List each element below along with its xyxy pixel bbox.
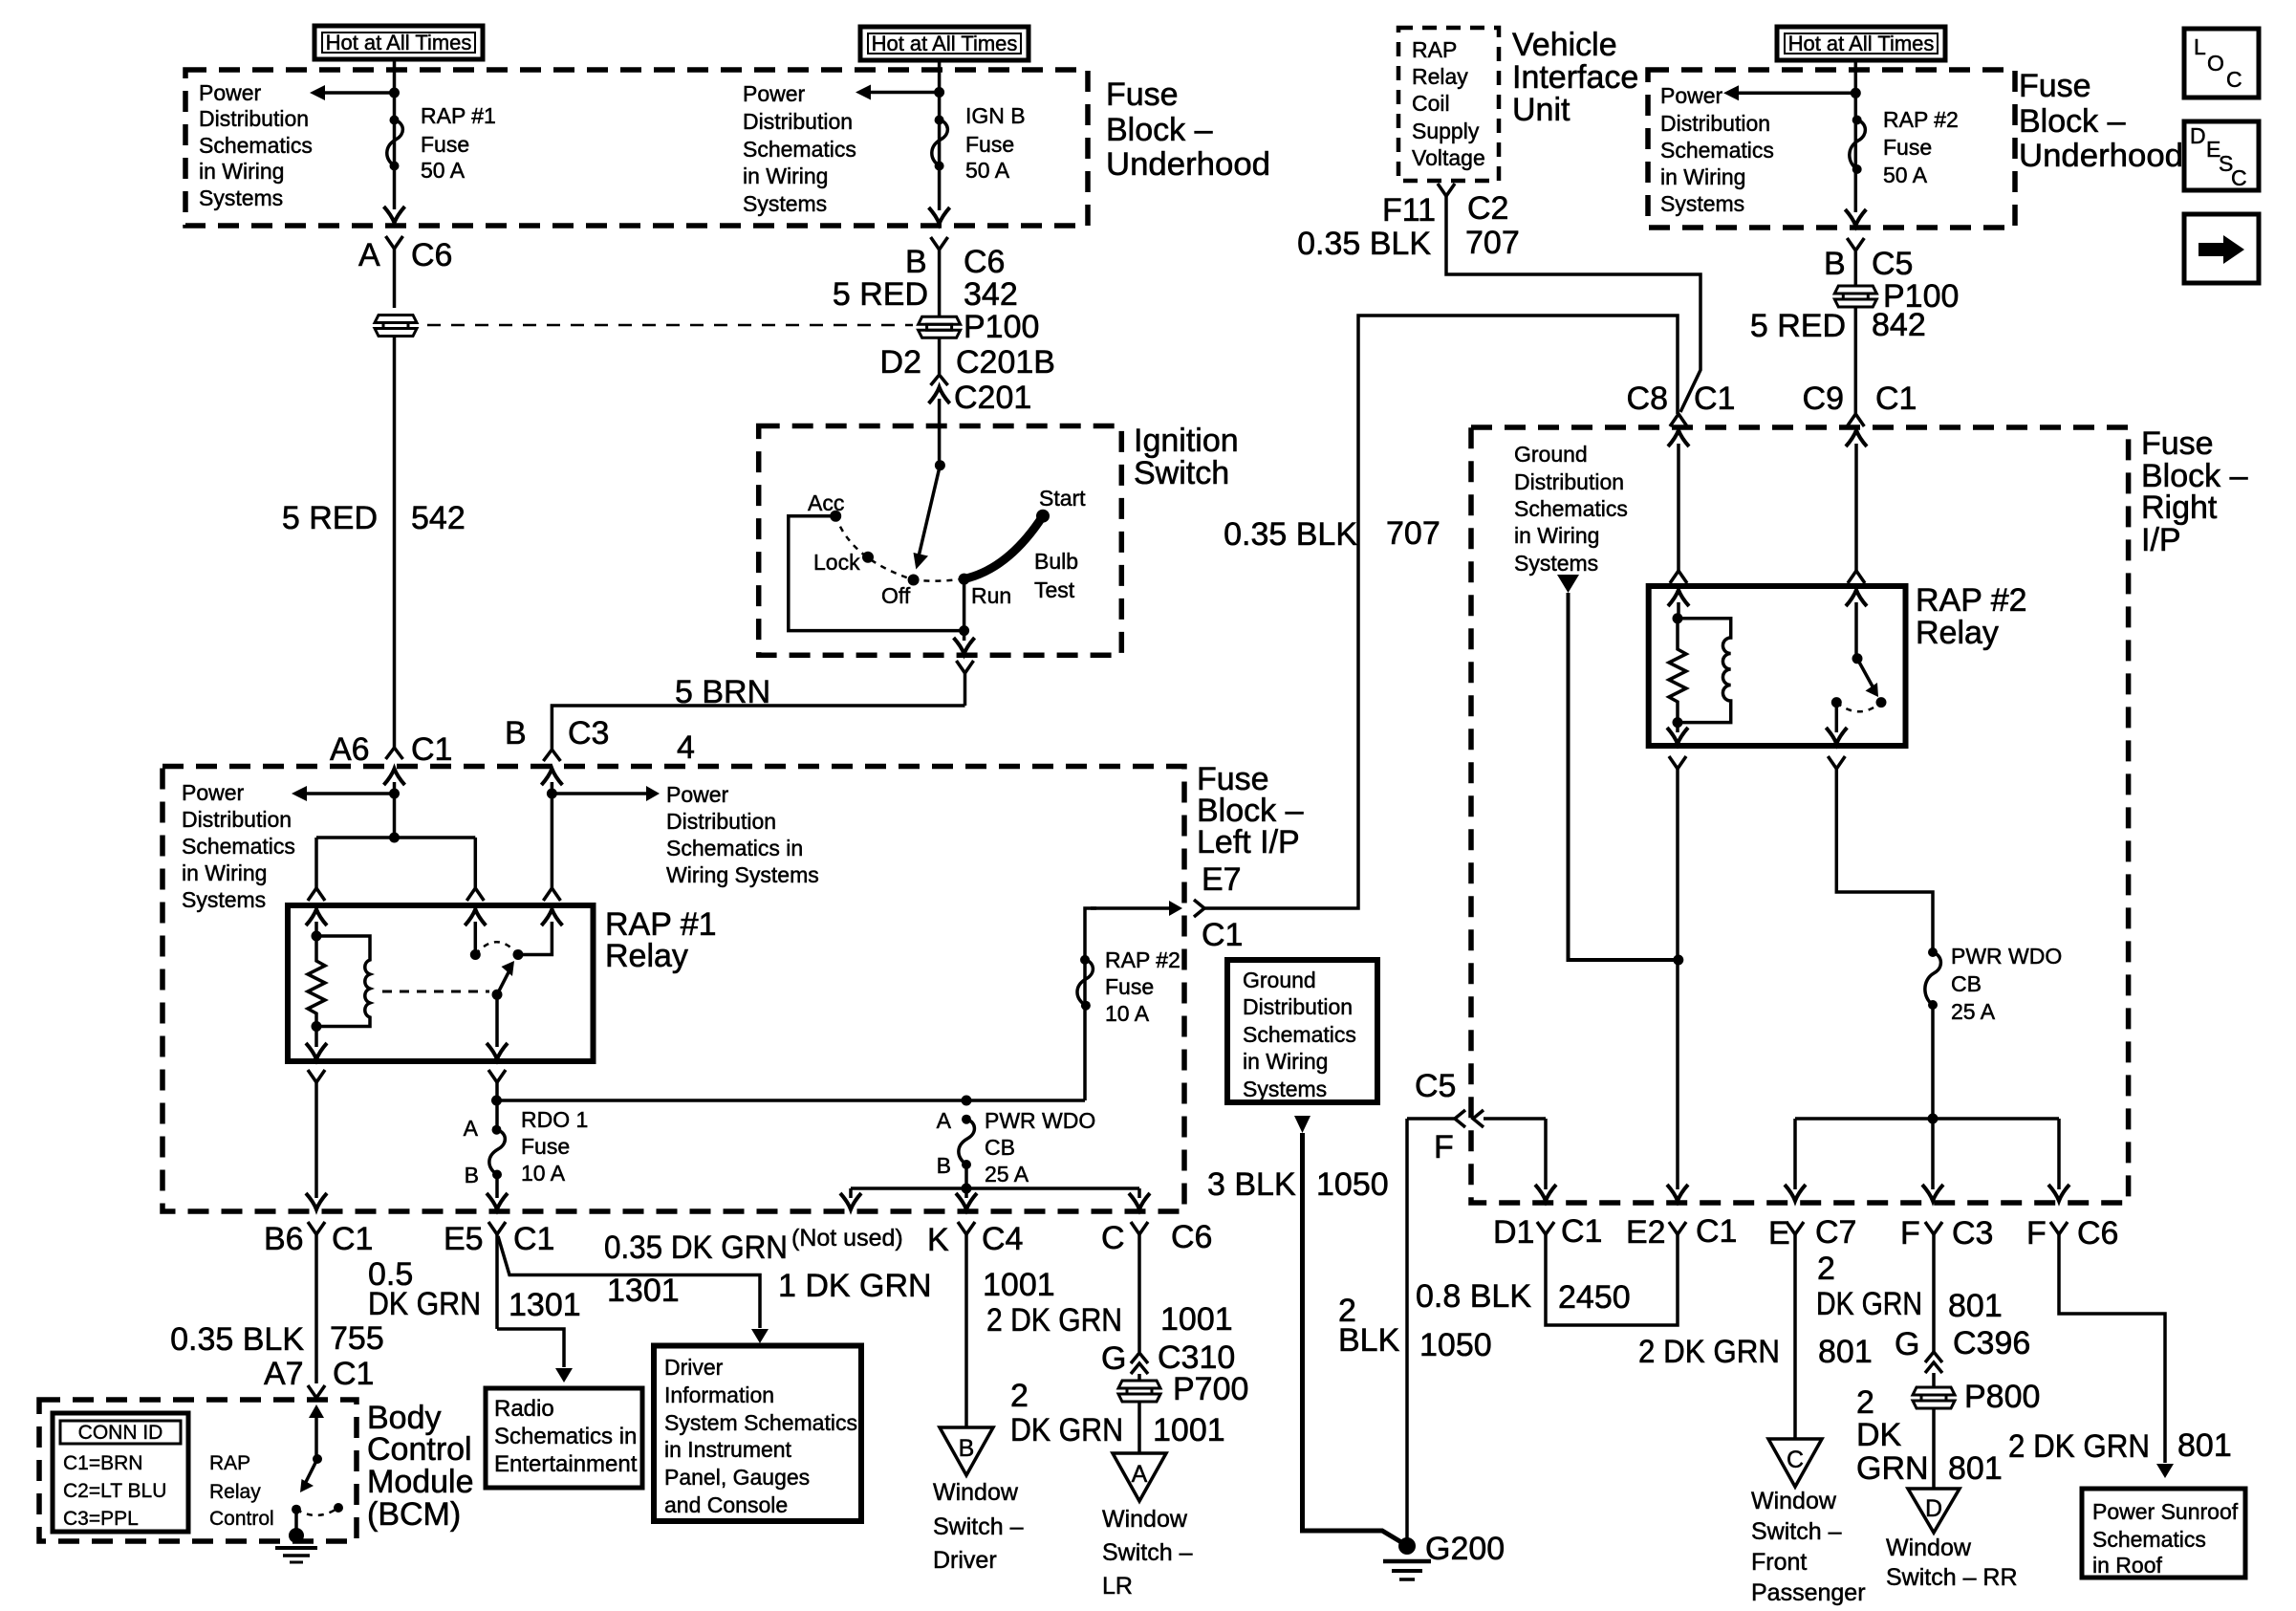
wire rotor arm with arrow: [914, 466, 941, 570]
label Bulb Test: [1034, 549, 1078, 602]
svg-text:C5: C5: [1415, 1068, 1456, 1104]
svg-text:RAP #2: RAP #2: [1883, 107, 1959, 132]
connector fork E5/C1: [488, 1222, 506, 1329]
wire RAP#2 feed vertical: [1854, 60, 1858, 212]
svg-text:1301: 1301: [509, 1287, 581, 1323]
svg-text:Underhood: Underhood: [2019, 138, 2183, 174]
label 2 DK GRN / 801 (E): [1638, 1334, 1873, 1370]
connector fork below relay (left): [308, 1070, 325, 1198]
label Body Control Module (BCM): [367, 1400, 474, 1533]
svg-text:Schematics: Schematics: [743, 137, 856, 162]
svg-text:RAP: RAP: [1412, 37, 1457, 62]
svg-text:C4: C4: [982, 1221, 1023, 1257]
svg-text:Switch: Switch: [1134, 455, 1229, 491]
triangle connector B (Window Switch Driver): [940, 1427, 993, 1475]
thick arc Run to Start: [964, 516, 1043, 579]
arrow down at box edge: [384, 207, 405, 223]
svg-text:in Wiring: in Wiring: [1660, 164, 1745, 189]
svg-text:Window: Window: [933, 1479, 1019, 1506]
wire D1 to E2 U-link: [1546, 1234, 1678, 1325]
connector fork below relay2 (left): [1669, 756, 1686, 1189]
svg-text:C3: C3: [568, 715, 609, 751]
svg-text:Fuse: Fuse: [1106, 76, 1179, 113]
arrow down (K): [956, 1188, 977, 1209]
node junction dot: [389, 88, 400, 98]
svg-text:Bulb: Bulb: [1034, 549, 1078, 574]
node Run contact: [959, 574, 970, 585]
connector P100 (right pass-through): [1834, 286, 1876, 307]
wire E5 branch to DIS: [498, 1236, 769, 1343]
svg-text:Underhood: Underhood: [1106, 146, 1270, 183]
fuse RDO 1 10 A: [489, 1125, 505, 1180]
svg-text:C2=LT BLU: C2=LT BLU: [63, 1480, 166, 1502]
connector fork E2/C1: [1669, 1222, 1686, 1234]
svg-text:A7: A7: [264, 1356, 304, 1392]
svg-text:2 DK GRN: 2 DK GRN: [986, 1302, 1122, 1339]
svg-text:Distribution: Distribution: [1660, 111, 1770, 136]
svg-text:Distribution: Distribution: [182, 807, 292, 832]
svg-text:B: B: [465, 1163, 479, 1187]
dashed arc between contacts (relay2): [1836, 703, 1881, 712]
label 0.5 DK GRN: [368, 1256, 481, 1322]
label 5 RED / 342: [833, 276, 1018, 313]
connector fork B6/C1: [308, 1222, 325, 1383]
svg-text:Switch –: Switch –: [933, 1513, 1024, 1540]
connector fork F11/C2: [1438, 184, 1455, 196]
svg-text:Off: Off: [881, 583, 911, 608]
Fuse Block Left I/P dashed box: [162, 767, 1184, 1212]
connector fork E7: [1194, 900, 1204, 917]
RAP Relay Coil Supply Voltage dashed box: [1398, 28, 1499, 181]
svg-text:Hot at All Times: Hot at All Times: [1788, 32, 1935, 55]
wire into ignition switch: [938, 426, 942, 466]
arrow down at box edge: [929, 207, 950, 224]
svg-text:C1: C1: [1875, 381, 1917, 417]
svg-text:801: 801: [2177, 1427, 2232, 1464]
connector fork C9/C1: [1847, 414, 1864, 426]
switch arm (relay 1): [497, 961, 514, 994]
note Power Distribution Schematics (box1 mid): [743, 81, 856, 216]
resistor (relay 1): [308, 936, 325, 1027]
dashed actuation link: [382, 991, 489, 993]
svg-text:F: F: [2026, 1215, 2047, 1252]
svg-text:D1: D1: [1493, 1214, 1534, 1251]
wire pivot to ground: [294, 1510, 298, 1530]
note Power Distribution Schematics (box1): [199, 80, 313, 210]
next-page arrow box: [2184, 214, 2259, 283]
svg-text:Acc: Acc: [808, 490, 844, 515]
wire F11 to C8: [1446, 196, 1700, 412]
svg-text:Fuse: Fuse: [965, 132, 1014, 157]
svg-text:Power: Power: [743, 81, 806, 106]
Driver Information box: [654, 1346, 861, 1522]
svg-text:Block –: Block –: [2019, 103, 2126, 140]
svg-text:Left I/P: Left I/P: [1197, 824, 1300, 860]
arrow up inside relay2 (left): [1668, 590, 1689, 619]
node switch pivot: [492, 990, 503, 1000]
svg-text:10 A: 10 A: [1105, 1001, 1150, 1026]
label Ignition Switch: [1134, 423, 1239, 491]
arrow down at right box bottom edge (E2): [1667, 1185, 1688, 1201]
svg-text:801: 801: [1948, 1450, 2003, 1487]
svg-text:Vehicle: Vehicle: [1512, 27, 1617, 63]
svg-text:Fuse: Fuse: [1105, 974, 1154, 999]
wire left branch down: [314, 838, 318, 888]
svg-text:Relay: Relay: [1916, 615, 1999, 651]
BCM dashed box: [39, 1400, 357, 1541]
node fixed contact NO (relay2): [1876, 697, 1887, 708]
wire E7 riser to C8: [1204, 316, 1678, 908]
label Window Switch - RR: [1886, 1535, 2018, 1591]
svg-text:Information: Information: [664, 1382, 774, 1407]
svg-text:C6: C6: [964, 244, 1005, 280]
svg-text:D: D: [2190, 123, 2206, 148]
resistor (relay 2): [1669, 619, 1686, 723]
triangle connector C (Window Switch Front Passenger): [1768, 1439, 1822, 1487]
svg-text:0.35 BLK: 0.35 BLK: [1297, 226, 1431, 262]
svg-text:Schematics: Schematics: [1660, 138, 1774, 163]
wire C5 link: [1407, 1117, 1546, 1121]
svg-text:E2: E2: [1626, 1214, 1666, 1251]
wire below P100: [938, 338, 942, 375]
svg-text:A: A: [937, 1108, 952, 1133]
note RAP Relay Coil Supply Voltage: [1412, 37, 1485, 170]
label 2 BLK (G200 wire): [1338, 1293, 1400, 1359]
svg-text:F: F: [1900, 1215, 1920, 1252]
node BCM pivot dot: [292, 1505, 301, 1514]
node dot A6 branch: [389, 789, 400, 799]
svg-text:C6: C6: [411, 237, 452, 273]
svg-text:K: K: [927, 1222, 949, 1258]
connector fork B/C5: [1847, 238, 1864, 286]
svg-text:Systems: Systems: [182, 887, 266, 912]
svg-text:342: 342: [964, 276, 1018, 313]
svg-text:Systems: Systems: [1514, 551, 1598, 576]
svg-text:Control: Control: [367, 1431, 472, 1468]
wire Acc to Run feedback: [789, 516, 964, 631]
svg-text:RAP #2: RAP #2: [1916, 582, 2027, 619]
pointer triangle ground box: [1294, 1116, 1310, 1133]
svg-text:Systems: Systems: [199, 185, 283, 210]
svg-text:A: A: [358, 237, 380, 273]
arrow up inside relay (B): [518, 909, 562, 955]
svg-text:Power: Power: [1660, 83, 1723, 108]
svg-text:50 A: 50 A: [965, 158, 1010, 183]
svg-text:E5: E5: [444, 1221, 484, 1257]
svg-text:Switch –: Switch –: [1751, 1518, 1842, 1545]
svg-text:I/P: I/P: [2141, 522, 2181, 558]
svg-text:707: 707: [1465, 225, 1520, 261]
svg-text:Switch –: Switch –: [1102, 1539, 1193, 1566]
fuse RAP #2 10 A: [1077, 955, 1093, 1011]
LOC box: [2184, 29, 2259, 98]
svg-text:Relay: Relay: [1412, 64, 1468, 89]
svg-text:Schematics in: Schematics in: [666, 836, 803, 860]
svg-text:DK GRN: DK GRN: [1010, 1412, 1123, 1448]
svg-text:Fuse: Fuse: [421, 132, 469, 157]
wire ground note to coil return: [1569, 593, 1679, 960]
Power Sunroof box: [2082, 1489, 2245, 1578]
label RAP #2 Fuse 50 A: [1883, 107, 1959, 187]
node junction dot: [934, 87, 944, 98]
label 0.35 BLK / 707 (riser): [1224, 515, 1440, 553]
connector C310 double chevron: [1131, 1353, 1148, 1380]
wire arrow to Power Distribution (left): [310, 85, 395, 100]
label 3 BLK / 1050: [1207, 1166, 1389, 1203]
svg-text:DK GRN: DK GRN: [368, 1286, 481, 1322]
svg-text:0.35 BLK: 0.35 BLK: [170, 1321, 304, 1358]
label Fuse Block - Left I/P: [1197, 761, 1304, 860]
svg-text:A: A: [464, 1116, 479, 1141]
connector fork below relay (switch): [488, 1070, 506, 1130]
svg-text:1050: 1050: [1316, 1166, 1389, 1203]
svg-text:CB: CB: [1951, 971, 1982, 996]
arrow down (C): [1129, 1188, 1150, 1209]
wire 5 BRN run: [552, 706, 964, 750]
svg-text:C5: C5: [1872, 246, 1913, 282]
connector fork E/C7: [1787, 1222, 1804, 1439]
svg-text:Distribution: Distribution: [743, 109, 853, 134]
wire A6 into box: [393, 782, 397, 838]
node T junction: [389, 833, 400, 843]
DESC box: [2184, 121, 2259, 190]
svg-text:Hot at All Times: Hot at All Times: [326, 31, 472, 54]
svg-text:Block –: Block –: [1106, 112, 1213, 148]
svg-text:0.8 BLK: 0.8 BLK: [1416, 1278, 1531, 1315]
wire drop E with arrow: [1785, 1119, 1806, 1201]
Radio Schematics box: [486, 1388, 642, 1488]
node BCM alternate contact dot: [334, 1503, 343, 1513]
svg-text:1 DK GRN: 1 DK GRN: [778, 1268, 932, 1304]
node coil top dot: [312, 931, 322, 942]
svg-text:Window: Window: [1102, 1506, 1188, 1533]
svg-text:Interface: Interface: [1512, 59, 1638, 96]
svg-text:50 A: 50 A: [1883, 163, 1928, 187]
svg-text:in Wiring: in Wiring: [743, 163, 828, 188]
svg-text:Power: Power: [182, 780, 245, 805]
svg-text:2: 2: [1010, 1378, 1029, 1414]
svg-text:Relay: Relay: [605, 938, 688, 974]
connector C396 double chevron: [1925, 1352, 1942, 1386]
node rotor junction dot: [935, 460, 945, 470]
svg-text:Test: Test: [1034, 577, 1075, 602]
svg-text:A6: A6: [330, 731, 370, 768]
connector fork A/C6: [386, 236, 403, 308]
svg-text:in Wiring: in Wiring: [182, 860, 267, 885]
svg-text:1001: 1001: [1153, 1412, 1225, 1448]
note Power Distribution Schematics (right col): [666, 782, 819, 887]
svg-text:C: C: [2226, 67, 2242, 92]
svg-text:C396: C396: [1953, 1325, 2030, 1361]
svg-text:Ground: Ground: [1243, 968, 1316, 992]
wire C5 to G200: [1405, 1119, 1409, 1543]
svg-text:C6: C6: [1171, 1219, 1212, 1255]
node ground tie junction: [1673, 955, 1683, 966]
svg-text:PWR WDO: PWR WDO: [985, 1108, 1095, 1133]
svg-text:Distribution: Distribution: [1514, 469, 1624, 494]
connector P800 grommet: [1913, 1387, 1955, 1408]
ignition switch dashed box: [759, 426, 1122, 656]
label IGN B Fuse 50 A: [965, 103, 1026, 183]
svg-text:0.35 DK GRN: 0.35 DK GRN: [604, 1230, 788, 1266]
node junction dot: [1851, 88, 1861, 98]
pointer triangle ground note: [1557, 575, 1579, 593]
wire Run output: [963, 579, 966, 641]
node fixed contact 2: [513, 949, 524, 960]
svg-text:DK GRN: DK GRN: [1816, 1286, 1922, 1322]
svg-text:CONN ID: CONN ID: [78, 1422, 163, 1444]
node CB output junction: [962, 1184, 972, 1194]
svg-text:RAP #2: RAP #2: [1105, 947, 1180, 972]
svg-text:C1: C1: [332, 1221, 373, 1257]
label RAP #1 Relay: [605, 906, 717, 974]
label 1001 / 2 DK GRN (C): [986, 1301, 1233, 1339]
dashed arc between contacts: [475, 942, 518, 954]
wire arrow to Power Distribution (right): [1723, 85, 1855, 100]
svg-text:B: B: [505, 715, 527, 751]
wire C8 to relay: [1677, 444, 1680, 571]
wire T bar: [316, 836, 475, 839]
svg-text:F11: F11: [1382, 192, 1436, 229]
relay box RAP #2: [1649, 586, 1906, 746]
arrow down at ignition box edge: [954, 638, 975, 654]
svg-text:Module: Module: [367, 1464, 474, 1500]
svg-text:Schematics in: Schematics in: [494, 1424, 637, 1449]
wire RAP#1 vertical feed: [393, 59, 397, 209]
svg-text:C1: C1: [333, 1356, 374, 1392]
fuse RAP #1 50 A: [387, 116, 403, 171]
switch arm (relay 2): [1857, 659, 1878, 697]
svg-text:G: G: [1895, 1326, 1919, 1362]
Hot at All Times box 3: [1777, 27, 1945, 60]
wire output bar: [851, 1186, 1139, 1190]
svg-text:E7: E7: [1202, 861, 1242, 898]
svg-text:C201B: C201B: [956, 344, 1055, 381]
svg-text:2: 2: [1856, 1384, 1874, 1421]
svg-text:Unit: Unit: [1512, 92, 1570, 128]
connector fork into relay (left): [308, 888, 325, 901]
connector fork A7/C1: [308, 1385, 325, 1398]
connector P700 grommet: [1118, 1381, 1160, 1402]
connector C201 chevron: [931, 375, 948, 385]
fuse RAP #2 50 A: [1850, 116, 1866, 175]
node Lock contact: [862, 552, 874, 563]
arrow down (Not used): [840, 1188, 861, 1209]
svg-text:Panel, Gauges: Panel, Gauges: [664, 1465, 810, 1490]
svg-text:B: B: [937, 1153, 951, 1178]
label 0.8 BLK / 2450: [1416, 1278, 1631, 1316]
svg-text:801: 801: [1818, 1334, 1873, 1370]
svg-text:DK: DK: [1856, 1417, 1902, 1453]
svg-text:1301: 1301: [607, 1273, 680, 1309]
svg-text:C1: C1: [1694, 381, 1735, 417]
svg-text:Schematics: Schematics: [1243, 1022, 1356, 1047]
wire drop F/C3 with arrow: [1922, 1119, 1943, 1201]
svg-text:C1: C1: [1561, 1213, 1602, 1250]
svg-text:Power: Power: [666, 782, 729, 807]
wire P800 to triangle D: [1932, 1408, 1936, 1489]
dashed link line between P100 halves: [427, 324, 913, 327]
label RDO 1 Fuse 10 A: [521, 1107, 588, 1186]
wire RAP#2 fuse riser to E7: [1085, 908, 1096, 1100]
svg-text:Schematics: Schematics: [199, 133, 313, 158]
svg-text:O: O: [2207, 51, 2224, 76]
dashed detent arc Acc-Lock-Off-Run: [835, 516, 959, 581]
connector fork into relay (mid): [466, 888, 484, 901]
connector fork C8/C1: [1670, 414, 1687, 426]
svg-text:C1: C1: [1696, 1213, 1737, 1250]
label RAP #1 Fuse 50 A: [421, 103, 496, 183]
wire C5 drop to D1 with arrow: [1535, 1119, 1556, 1201]
connector fork C/C6: [1131, 1222, 1148, 1352]
svg-text:842: 842: [1872, 307, 1926, 343]
svg-text:Power Sunroof: Power Sunroof: [2092, 1499, 2239, 1524]
svg-text:Fuse: Fuse: [2019, 68, 2091, 104]
node Start contact: [1036, 510, 1050, 523]
svg-text:25 A: 25 A: [985, 1162, 1029, 1186]
svg-text:B: B: [959, 1435, 975, 1462]
arrow up at edge (C8 wire): [1668, 430, 1689, 446]
svg-text:in Instrument: in Instrument: [664, 1437, 792, 1462]
wire P700 to triangle A: [1137, 1402, 1141, 1453]
arrow up at edge (C9 wire): [1846, 430, 1867, 446]
svg-text:1050: 1050: [1419, 1327, 1492, 1363]
svg-text:0.35 BLK: 0.35 BLK: [1224, 516, 1357, 553]
wire 3 BLK 1050 to G200: [1303, 1133, 1402, 1542]
arrow up inside relay (mid): [465, 909, 486, 955]
label Window Switch - Driver: [933, 1479, 1024, 1574]
svg-text:D: D: [1925, 1495, 1942, 1522]
svg-text:Hot at All Times: Hot at All Times: [872, 32, 1018, 55]
svg-text:C3=PPL: C3=PPL: [63, 1508, 139, 1530]
svg-text:50 A: 50 A: [421, 158, 466, 183]
svg-text:LR: LR: [1102, 1573, 1133, 1600]
svg-text:C1: C1: [411, 731, 452, 768]
label RAP Relay Control: [209, 1452, 274, 1530]
note Power Distribution Schematics (right box): [1660, 83, 1774, 216]
wire coil to box bottom with arrow (relay2): [1667, 723, 1688, 744]
arrow up at edge (B wire): [541, 769, 562, 785]
node coil top dot (relay2): [1673, 613, 1683, 623]
Hot at All Times box 2: [860, 27, 1029, 60]
svg-text:801: 801: [1948, 1288, 2003, 1324]
svg-text:Fuse: Fuse: [2141, 425, 2214, 462]
node switch pivot (relay2): [1852, 653, 1863, 664]
svg-text:System Schematics: System Schematics: [664, 1410, 857, 1435]
svg-text:Systems: Systems: [1660, 191, 1744, 216]
svg-text:CB: CB: [985, 1135, 1015, 1160]
svg-text:BLK: BLK: [1338, 1322, 1400, 1359]
svg-text:C: C: [1101, 1220, 1125, 1256]
connector fork A6/C1: [386, 748, 403, 759]
arrow right at E7 edge: [1091, 901, 1182, 916]
svg-text:C2: C2: [1467, 190, 1508, 227]
arrow up inside BCM: [309, 1404, 324, 1459]
connector fork into relay2 (right): [1848, 571, 1865, 583]
wire RDO to edge with arrow: [487, 1175, 508, 1210]
svg-text:G200: G200: [1425, 1531, 1505, 1567]
svg-text:2450: 2450: [1558, 1279, 1631, 1316]
svg-text:3 BLK: 3 BLK: [1207, 1166, 1296, 1203]
label 2 DK GRN (K): [1010, 1378, 1123, 1448]
node Run output junction: [959, 625, 969, 636]
svg-text:F: F: [1434, 1129, 1454, 1165]
connector fork below relay2 (right): [1828, 756, 1933, 952]
svg-text:2: 2: [1817, 1251, 1835, 1287]
svg-text:RAP #1: RAP #1: [421, 103, 496, 128]
label RAP #2 Relay: [1916, 582, 2027, 651]
wire down to C9: [1854, 307, 1858, 414]
